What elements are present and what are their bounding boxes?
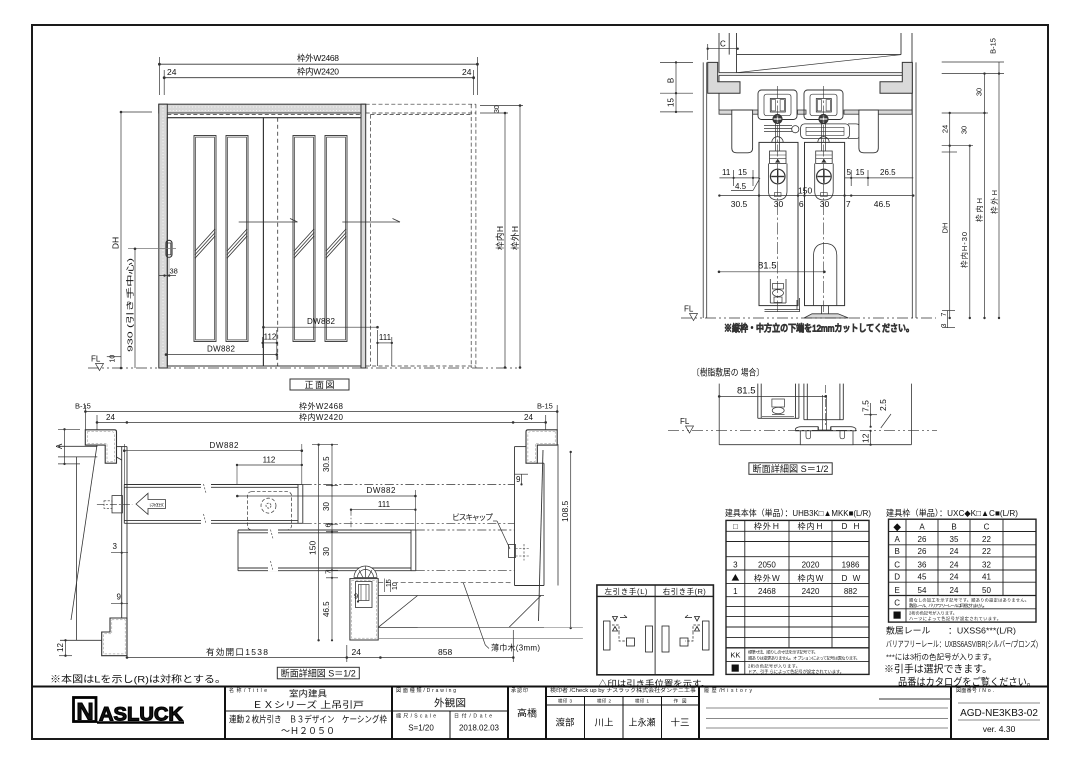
- svg-text:35: 35: [950, 535, 959, 544]
- svg-text:十三: 十三: [671, 717, 690, 728]
- hanger track unit 1: [758, 90, 797, 151]
- svg-text:高橋: 高橋: [517, 708, 538, 720]
- sill profile: [796, 427, 856, 445]
- svg-text:枠内H-30: 枠内H-30: [959, 232, 969, 268]
- svg-text:7.5: 7.5: [861, 400, 871, 412]
- svg-text:150: 150: [308, 541, 318, 555]
- svg-text:24: 24: [524, 413, 533, 422]
- svg-text:枠外W2468: 枠外W2468: [297, 53, 339, 63]
- svg-text:32: 32: [982, 560, 991, 569]
- svg-text:DW882: DW882: [210, 441, 240, 450]
- bottom dims 有効開口1538 / 24 / 858: [126, 630, 515, 662]
- svg-text:2050: 2050: [758, 560, 776, 569]
- svg-text:81.5: 81.5: [737, 386, 756, 397]
- svg-text:2020: 2020: [802, 560, 820, 569]
- svg-text:A: A: [895, 535, 901, 544]
- svg-text:3: 3: [941, 323, 948, 327]
- svg-text:枠外W2468: 枠外W2468: [299, 401, 344, 411]
- dim 81.5: [718, 261, 826, 274]
- svg-text:9: 9: [354, 592, 358, 601]
- svg-text:室内建具: 室内建具: [289, 689, 328, 699]
- title texts: [229, 687, 387, 736]
- hidden continuation lines: [303, 485, 515, 571]
- handle diagram L: [604, 615, 653, 652]
- svg-text:4.5: 4.5: [735, 182, 747, 191]
- right jamb L (hatched): [880, 62, 912, 93]
- dim 9 (board): [111, 593, 128, 605]
- svg-text:3: 3: [733, 560, 738, 569]
- svg-text:履 歴 /H i s t o r y: 履 歴 /H i s t o r y: [704, 688, 753, 694]
- svg-text:B-15: B-15: [989, 38, 998, 54]
- svg-text:7: 7: [941, 312, 948, 316]
- door2 adjuster: [815, 151, 834, 200]
- svg-text:B: B: [895, 547, 900, 556]
- svg-text:名称/Title: 名称/Title: [229, 687, 267, 694]
- svg-text:30.5: 30.5: [322, 456, 331, 472]
- svg-text:FL: FL: [91, 355, 101, 364]
- svg-text:検印 2: 検印 2: [597, 698, 611, 705]
- dim 枠内W2420 (plan): [85, 405, 557, 444]
- svg-text:30: 30: [975, 88, 984, 96]
- svg-text:22: 22: [982, 535, 991, 544]
- table1 texts: [730, 521, 860, 675]
- left dims B/15: [660, 61, 693, 113]
- svg-text:12: 12: [56, 643, 65, 652]
- handle diagram R: [662, 615, 709, 652]
- left frame board: [117, 447, 128, 618]
- svg-text:～Ｈ２０５０: ～Ｈ２０５０: [281, 726, 335, 736]
- left jamb L (hatched): [708, 62, 740, 93]
- svg-text:24: 24: [462, 67, 472, 77]
- right dims 枠内H 枠外H: [480, 104, 523, 369]
- svg-text:作 図: 作 図: [674, 698, 688, 705]
- svg-text:112: 112: [264, 333, 277, 342]
- 断面詳細図 S=1/2 label (right): [749, 463, 832, 475]
- svg-text:10: 10: [392, 582, 399, 590]
- svg-text:〔樹脂敷居の 場合〕: 〔樹脂敷居の 場合〕: [692, 367, 764, 378]
- svg-text:ハーツによって色記号が設定されています。: ハーツによって色記号が設定されています。: [909, 615, 1001, 622]
- dim 12: [56, 639, 72, 657]
- svg-text:渡部: 渡部: [556, 717, 575, 728]
- centerlines: [778, 86, 824, 312]
- svg-text:C: C: [720, 40, 726, 49]
- svg-text:38: 38: [170, 267, 178, 276]
- svg-text:枠内H: 枠内H: [974, 198, 984, 222]
- svg-text:D: D: [894, 573, 900, 582]
- svg-text:□: □: [733, 522, 738, 531]
- dim C: [707, 40, 739, 61]
- svg-text:有効開口1538: 有効開口1538: [206, 647, 268, 657]
- svg-text:46.5: 46.5: [874, 199, 891, 209]
- svg-text:DW882: DW882: [207, 345, 236, 354]
- svg-text:C: C: [894, 599, 900, 608]
- right casing (plan): [526, 430, 557, 463]
- hanger track unit 2: [804, 90, 843, 151]
- left casing (plan): [85, 430, 116, 463]
- table2 grid: [889, 519, 1037, 622]
- svg-text:5: 5: [847, 168, 852, 177]
- svg-text:24: 24: [950, 560, 959, 569]
- dim 150 row: [718, 186, 914, 210]
- svg-text:枠内W2420: 枠内W2420: [297, 67, 339, 77]
- svg-text:7: 7: [846, 199, 851, 209]
- svg-text:B-15: B-15: [75, 402, 91, 411]
- right wall: [911, 62, 913, 318]
- table2 texts: [893, 523, 1029, 623]
- dim DH: [111, 111, 153, 370]
- interlock arm: [764, 124, 860, 139]
- dim 枠外W2468: [158, 53, 479, 66]
- svg-text:FL: FL: [684, 305, 694, 314]
- svg-text:正面図: 正面図: [305, 380, 335, 390]
- svg-text:B-15: B-15: [537, 402, 553, 411]
- svg-text:断面詳細図 S＝1/2: 断面詳細図 S＝1/2: [281, 667, 356, 678]
- rail bottom hatched band: [719, 110, 912, 114]
- svg-text:B: B: [667, 78, 676, 83]
- 正面図 label: [290, 379, 349, 390]
- svg-text:ＤＨ: ＤＨ: [841, 522, 861, 531]
- svg-text:敷居レール ：UXSS6***(L/R): 敷居レール ：UXSS6***(L/R): [886, 626, 1016, 636]
- svg-text:※引手は選択できます。: ※引手は選択できます。: [884, 663, 992, 676]
- svg-text:C: C: [984, 523, 990, 532]
- svg-text:断面詳細図 S＝1/2: 断面詳細図 S＝1/2: [753, 463, 829, 474]
- svg-text:ビスキャップ: ビスキャップ: [452, 513, 493, 522]
- dim A: [55, 428, 80, 465]
- svg-text:930 (引き手中心): 930 (引き手中心): [125, 257, 135, 352]
- svg-text:26: 26: [918, 547, 927, 556]
- svg-text:111: 111: [379, 333, 392, 342]
- svg-text:枠外H: 枠外H: [989, 190, 999, 214]
- svg-text:上永瀬: 上永瀬: [629, 717, 656, 728]
- hanger screws: [773, 114, 828, 123]
- svg-text:111: 111: [378, 500, 391, 509]
- svg-text:連動２枚片引き Ｂ３デザイン ケーシング枠: 連動２枚片引き Ｂ３デザイン ケーシング枠: [229, 714, 387, 725]
- svg-text:検印者 /Check up by ナスラック株式会社ダンテニ: 検印者 /Check up by ナスラック株式会社ダンテニ工事: [550, 687, 696, 694]
- wall right: [557, 444, 559, 585]
- svg-text:12: 12: [861, 433, 871, 443]
- roller dashed box on bar1: [247, 492, 291, 530]
- door1 section: [759, 142, 798, 305]
- history rule lines: [706, 699, 1040, 728]
- svg-text:26.5: 26.5: [880, 168, 896, 177]
- bottom dims DW882 / 112 / 111: [165, 317, 393, 366]
- slide direction arrows: [239, 219, 400, 223]
- svg-text:枠外Ｗ: 枠外Ｗ: [754, 573, 780, 583]
- svg-text:36: 36: [918, 560, 927, 569]
- soft close arrow: [136, 493, 165, 514]
- door2 section: [805, 142, 845, 305]
- svg-text:建具枠（単品）：UXC◆K□▲C■(L/R): 建具枠（単品）：UXC◆K□▲C■(L/R): [886, 508, 1018, 518]
- dim 5/15/26.5: [845, 168, 914, 186]
- svg-text:検印 3: 検印 3: [558, 698, 572, 705]
- svg-text:薄巾木(3mm): 薄巾木(3mm): [491, 643, 540, 653]
- svg-text:15: 15: [667, 98, 676, 107]
- svg-text:S=1/20: S=1/20: [408, 724, 434, 733]
- svg-text:30: 30: [820, 199, 830, 209]
- svg-text:KK: KK: [730, 651, 740, 660]
- stopper block left: [732, 110, 753, 153]
- svg-text:22: 22: [982, 547, 991, 556]
- door top arch notches: [772, 137, 829, 143]
- glass panels: [194, 136, 347, 342]
- svg-text:24: 24: [167, 67, 177, 77]
- svg-text:承認印: 承認印: [511, 687, 528, 694]
- svg-text:レフトクローズ: レフトクローズ: [149, 502, 164, 508]
- svg-text:6: 6: [324, 523, 333, 527]
- svg-text:※縦枠・中方立の下端を12mmカットしてください。: ※縦枠・中方立の下端を12mmカットしてください。: [724, 323, 914, 335]
- svg-text:A: A: [919, 523, 925, 532]
- svg-text:縮尺/Scale: 縮尺/Scale: [396, 713, 436, 720]
- svg-text:24: 24: [941, 125, 950, 133]
- FL marker and floor line: [88, 355, 520, 371]
- svg-text:54: 54: [918, 586, 927, 595]
- svg-text:26: 26: [918, 535, 927, 544]
- svg-text:川上: 川上: [595, 718, 614, 728]
- svg-text:10: 10: [110, 355, 117, 363]
- 薄巾木 label: [463, 583, 540, 653]
- door2 arch guide groove: [814, 244, 837, 306]
- dim DW882 bar1: [123, 441, 303, 485]
- svg-text:45: 45: [918, 573, 927, 582]
- door1 bottom guide channel: [765, 279, 801, 312]
- door2 section: [804, 384, 843, 433]
- svg-text:枠内H: 枠内H: [495, 226, 505, 250]
- dim 3 (board): [111, 542, 128, 554]
- svg-text:枠外Ｈ: 枠外Ｈ: [754, 521, 780, 531]
- svg-text:ＥＸシリーズ 上吊引戸: ＥＸシリーズ 上吊引戸: [252, 699, 364, 710]
- NASLUCK logo: [74, 698, 185, 726]
- svg-text:ドア、引手 らによって色記号が設定されています。: ドア、引手 らによって色記号が設定されています。: [748, 668, 844, 675]
- svg-text:30: 30: [494, 105, 501, 113]
- svg-text:50: 50: [982, 586, 991, 595]
- svg-text:24: 24: [950, 586, 959, 595]
- svg-text:2420: 2420: [802, 587, 820, 596]
- rail notes: [884, 626, 1038, 689]
- svg-text:15: 15: [856, 168, 865, 177]
- dim 11/15/4.5: [719, 168, 760, 191]
- svg-text:3: 3: [113, 542, 118, 551]
- dim 枠外W2468 (plan): [75, 401, 559, 413]
- center stile guide (plan): [350, 579, 378, 640]
- svg-text:30: 30: [322, 547, 331, 556]
- svg-text:枠内W2420: 枠内W2420: [299, 412, 344, 422]
- dashed line at stile level: [378, 582, 510, 584]
- enclosing extent lines: [719, 384, 911, 445]
- svg-text:2468: 2468: [758, 587, 776, 596]
- svg-text:6: 6: [799, 199, 804, 209]
- title block frame: [32, 687, 1048, 740]
- svg-text:2018.02.03: 2018.02.03: [459, 724, 500, 733]
- dim 81.5: [718, 385, 827, 427]
- table1 grid: [726, 520, 869, 674]
- svg-text:30: 30: [774, 199, 784, 209]
- handle position box: [597, 585, 714, 675]
- svg-text:FL: FL: [680, 417, 690, 426]
- svg-text:※本図はLを示し(R)は対称とする。: ※本図はLを示し(R)は対称とする。: [50, 674, 226, 686]
- FL marker: [681, 305, 936, 321]
- svg-text:図面番号 / N o .: 図面番号 / N o .: [956, 687, 994, 694]
- svg-text:敷居レール、バリアフリーレールは同梱されません。: 敷居レール、バリアフリーレールは同梱されません。: [909, 602, 987, 609]
- dim 38 handle: [159, 258, 178, 277]
- svg-text:図面種類/Drawing: 図面種類/Drawing: [396, 687, 456, 694]
- svg-text:112: 112: [263, 455, 276, 464]
- svg-text:枠内Ｗ: 枠内Ｗ: [798, 573, 824, 583]
- baseboard band: [378, 596, 583, 639]
- svg-text:150: 150: [798, 186, 812, 196]
- svg-text:1: 1: [733, 587, 738, 596]
- svg-text:2.5: 2.5: [878, 399, 888, 411]
- svg-text:41: 41: [982, 573, 991, 582]
- svg-text:108.5: 108.5: [560, 500, 570, 522]
- svg-text:24: 24: [352, 647, 362, 657]
- left jamb: [159, 104, 168, 368]
- stopper block right: [859, 110, 878, 153]
- FL marker + floor line: [668, 417, 937, 433]
- svg-text:枠内Ｈ: 枠内Ｈ: [798, 521, 824, 531]
- svg-text:右引き手(R): 右引き手(R): [663, 586, 707, 596]
- handle: [128, 240, 176, 257]
- svg-text:AGD-NE3KB3-02: AGD-NE3KB3-02: [960, 708, 1038, 719]
- svg-text:DH: DH: [111, 237, 121, 249]
- svg-text:81.5: 81.5: [758, 261, 777, 272]
- wall lines left: [58, 445, 102, 640]
- 断面詳細図 label (bottom): [277, 667, 359, 679]
- dim 108.5: [560, 451, 572, 629]
- svg-text:順あ りは変更ありません。オ プションによって記号は異なりま: 順あ りは変更ありません。オ プションによって記号は異なります。: [748, 654, 860, 661]
- door bar 1 (plan): [124, 484, 302, 524]
- svg-text:N: N: [76, 699, 93, 726]
- svg-text:C: C: [894, 560, 900, 569]
- svg-text:検印 1: 検印 1: [635, 698, 649, 705]
- svg-text:30: 30: [960, 126, 969, 134]
- svg-text:11: 11: [722, 168, 731, 177]
- svg-text:日付/Date: 日付/Date: [454, 713, 492, 720]
- svg-text:左引き手(L): 左引き手(L): [605, 586, 649, 596]
- svg-text:24: 24: [950, 547, 959, 556]
- svg-text:24: 24: [106, 413, 115, 422]
- svg-text:DW882: DW882: [367, 486, 397, 495]
- svg-text:A: A: [55, 443, 64, 449]
- ceiling studs: [719, 33, 912, 73]
- door leaves: [167, 118, 361, 366]
- right dim stack: [941, 38, 1005, 328]
- svg-text:9: 9: [117, 593, 122, 602]
- svg-text:DH: DH: [941, 223, 950, 234]
- door1 adjuster: [769, 151, 788, 200]
- svg-text:E: E: [895, 586, 900, 595]
- right jamb: [361, 104, 366, 368]
- svg-text:建具本体（単品）：UHB3K□▲MKK■(L/R): 建具本体（単品）：UHB3K□▲MKK■(L/R): [725, 508, 871, 518]
- svg-text:外観図: 外観図: [434, 697, 466, 710]
- svg-text:***には3桁の色記号が入ります。: ***には3桁の色記号が入ります。: [886, 652, 996, 662]
- dim 930 handle center: [125, 248, 137, 369]
- left wall: [702, 62, 704, 318]
- svg-text:ver. 4.30: ver. 4.30: [983, 724, 1016, 734]
- svg-text:枠外H: 枠外H: [510, 226, 520, 250]
- right frame board: [515, 447, 545, 621]
- svg-text:DW882: DW882: [307, 317, 336, 326]
- dims 7.5 / 2.5 / 12: [861, 399, 892, 446]
- lower left casing: [102, 618, 127, 656]
- pocket dashed outline: [366, 104, 476, 368]
- svg-text:882: 882: [844, 587, 858, 596]
- 150 dim column: [308, 444, 339, 642]
- crown screw on stile: [354, 566, 399, 592]
- svg-text:24: 24: [950, 573, 959, 582]
- latch on door end: [97, 496, 132, 513]
- svg-text:1986: 1986: [842, 560, 860, 569]
- door frame head (hatched): [159, 104, 366, 118]
- door bar 2 (plan): [238, 529, 416, 571]
- dim DW882 bar2: [236, 486, 417, 530]
- svg-text:ＤＷ: ＤＷ: [841, 574, 861, 583]
- bis cap label + screw: [452, 513, 529, 561]
- svg-text:9: 9: [516, 475, 521, 484]
- door1 section: [758, 384, 799, 419]
- svg-text:30: 30: [322, 502, 331, 511]
- svg-text:バリアフリーレール：UXBS6ASV/BR(シルバー/ブロン: バリアフリーレール：UXBS6ASV/BR(シルバー/ブロンズ): [886, 639, 1038, 649]
- svg-text:30.5: 30.5: [731, 199, 748, 209]
- svg-text:46.5: 46.5: [322, 601, 331, 617]
- dim 9 right: [515, 474, 529, 485]
- dim 枠内W2420: [159, 57, 477, 95]
- svg-text:B: B: [951, 523, 956, 532]
- header beam: [719, 73, 912, 110]
- svg-text:858: 858: [438, 647, 452, 657]
- door2 floor guide: [804, 306, 849, 318]
- svg-text:15: 15: [738, 168, 747, 177]
